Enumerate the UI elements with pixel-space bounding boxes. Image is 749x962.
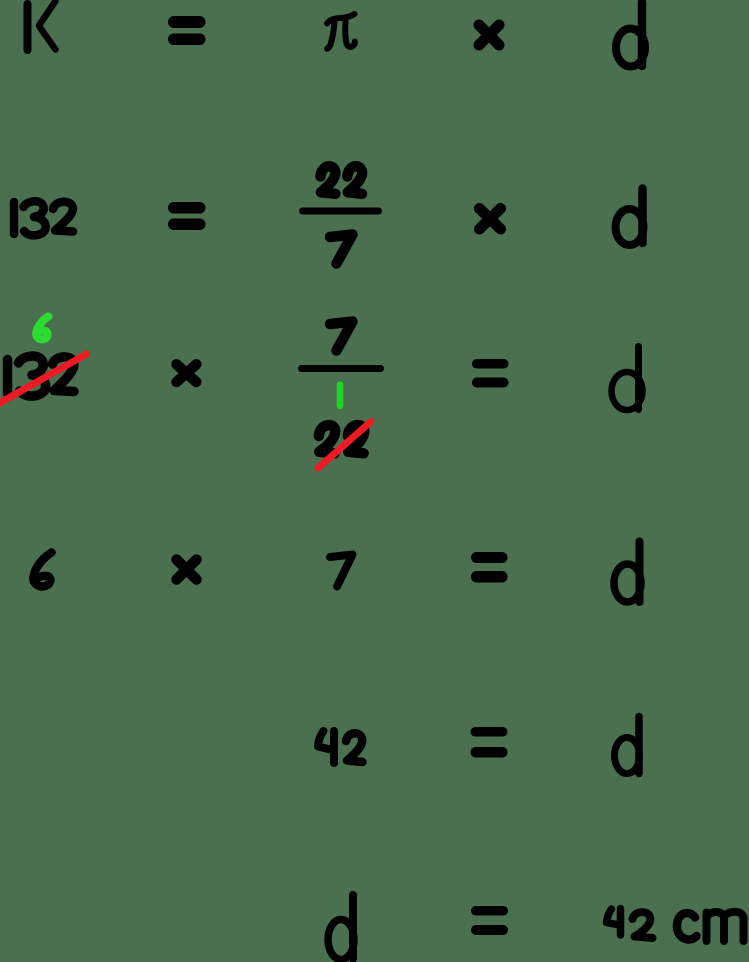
row5 equals sign [471, 727, 508, 758]
row4 equals sign [471, 552, 508, 583]
row3 number 132 (struck) [8, 356, 75, 396]
row1 letter d [616, 2, 645, 67]
row5 number 42 [318, 731, 363, 763]
row1 equals sign [168, 16, 206, 45]
row2 equals sign [168, 202, 206, 230]
row4 letter d [614, 542, 641, 603]
row1 times sign [479, 25, 499, 45]
row3 equals sign [472, 359, 509, 388]
row3 green quotient digit 1 [337, 385, 344, 407]
row2 fraction numerator 22 [321, 166, 363, 194]
row1 pi symbol [327, 14, 355, 49]
row3 letter d [612, 347, 643, 411]
row6 answer 42 [607, 909, 653, 939]
row3 times sign [177, 364, 197, 382]
row3 fraction bar [298, 365, 384, 372]
row4 times sign [177, 560, 197, 580]
row2 number 132 [14, 201, 73, 235]
row4 number 6 [33, 553, 51, 587]
row6 letter d [328, 895, 354, 960]
row3 red strike through 22 [318, 422, 371, 469]
row5 letter d [615, 717, 640, 774]
row2 fraction denominator 7 [330, 235, 353, 264]
row6 unit cm [677, 912, 744, 941]
row3 fraction denominator 22 (struck) [319, 425, 364, 453]
row3 green carry digit 6 [36, 317, 48, 340]
row2 times sign [480, 209, 501, 230]
row6 equals sign [471, 906, 508, 935]
row1 letter K [28, 1, 56, 50]
row2 fraction bar [299, 208, 382, 215]
row3 red strike through 132 [0, 354, 87, 405]
row4 number 7 [330, 555, 353, 587]
row3 fraction numerator 7 [330, 322, 353, 351]
row2 letter d [616, 189, 644, 246]
